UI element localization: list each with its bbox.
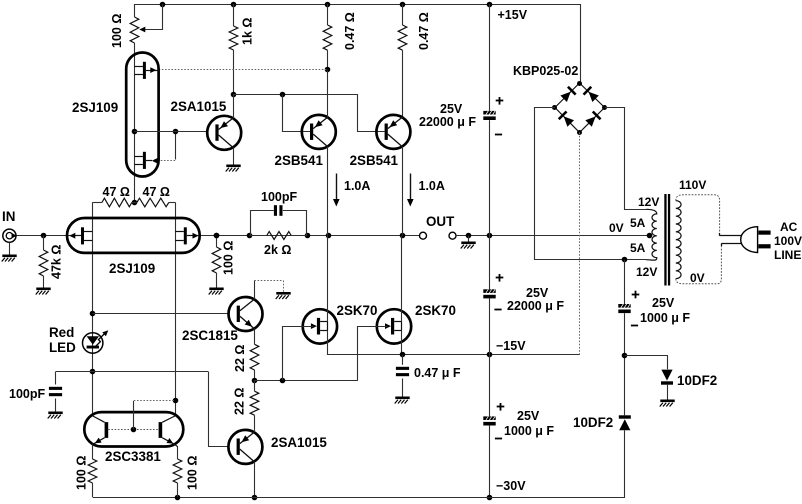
svg-text:2SJ109: 2SJ109 xyxy=(109,261,155,276)
svg-text:2SK70: 2SK70 xyxy=(415,303,456,318)
svg-text:100 Ω: 100 Ω xyxy=(75,456,89,490)
svg-text:100pF: 100pF xyxy=(261,190,297,204)
svg-text:10DF2: 10DF2 xyxy=(573,415,613,430)
svg-text:12V: 12V xyxy=(638,195,659,209)
svg-text:22000 μ F: 22000 μ F xyxy=(507,299,564,313)
svg-text:100pF: 100pF xyxy=(9,387,45,401)
svg-text:LINE: LINE xyxy=(774,248,801,262)
svg-text:1.0A: 1.0A xyxy=(344,179,370,193)
svg-text:2k Ω: 2k Ω xyxy=(264,243,291,257)
svg-text:LED: LED xyxy=(49,340,76,355)
svg-text:2SB541: 2SB541 xyxy=(350,153,399,168)
svg-text:22 Ω: 22 Ω xyxy=(233,388,247,415)
svg-text:100 Ω: 100 Ω xyxy=(110,14,124,48)
svg-text:1000 μ F: 1000 μ F xyxy=(504,424,554,438)
svg-text:5A: 5A xyxy=(630,216,646,230)
svg-text:100 Ω: 100 Ω xyxy=(186,456,200,490)
svg-text:25V: 25V xyxy=(526,286,549,300)
svg-text:2SA1015: 2SA1015 xyxy=(171,99,227,114)
svg-text:25V: 25V xyxy=(652,296,675,310)
svg-text:2SB541: 2SB541 xyxy=(275,153,324,168)
svg-text:0V: 0V xyxy=(609,221,624,235)
svg-text:22 Ω: 22 Ω xyxy=(233,345,247,372)
svg-text:2SA1015: 2SA1015 xyxy=(271,435,327,450)
svg-text:−30V: −30V xyxy=(496,479,526,493)
svg-text:100 Ω: 100 Ω xyxy=(222,241,236,275)
svg-text:2SC1815: 2SC1815 xyxy=(182,328,238,343)
svg-text:+15V: +15V xyxy=(498,8,528,22)
svg-text:2SK70: 2SK70 xyxy=(337,303,378,318)
svg-text:1k Ω: 1k Ω xyxy=(241,18,255,45)
svg-text:1000 μ F: 1000 μ F xyxy=(640,311,690,325)
svg-text:OUT: OUT xyxy=(426,214,455,229)
svg-text:2SC3381: 2SC3381 xyxy=(105,449,161,464)
svg-text:2SJ109: 2SJ109 xyxy=(72,100,118,115)
svg-text:12V: 12V xyxy=(636,265,657,279)
svg-text:22000 μ F: 22000 μ F xyxy=(419,115,476,129)
svg-text:5A: 5A xyxy=(630,241,646,255)
svg-text:10DF2: 10DF2 xyxy=(677,373,717,388)
svg-text:KBP025-02: KBP025-02 xyxy=(513,64,578,78)
svg-text:0.47 Ω: 0.47 Ω xyxy=(417,12,431,50)
svg-text:0.47 Ω: 0.47 Ω xyxy=(343,12,357,50)
svg-text:Red: Red xyxy=(49,325,74,340)
svg-text:0.47 μ F: 0.47 μ F xyxy=(414,366,461,380)
svg-text:25V: 25V xyxy=(440,102,463,116)
svg-text:1.0A: 1.0A xyxy=(419,179,445,193)
svg-text:100V: 100V xyxy=(774,234,802,248)
svg-text:AC: AC xyxy=(780,220,798,234)
svg-text:−15V: −15V xyxy=(496,339,526,353)
svg-text:47 Ω: 47 Ω xyxy=(103,185,130,199)
svg-text:0V: 0V xyxy=(690,271,705,285)
svg-text:25V: 25V xyxy=(517,409,540,423)
svg-text:IN: IN xyxy=(2,209,15,224)
svg-text:47 Ω: 47 Ω xyxy=(143,185,170,199)
svg-text:47k Ω: 47k Ω xyxy=(50,245,64,279)
svg-text:110V: 110V xyxy=(679,178,706,192)
